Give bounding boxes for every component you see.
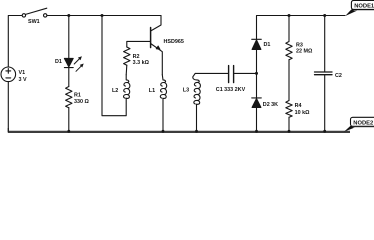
ground rail [8, 131, 350, 133]
svg-text:D1: D1 [264, 42, 271, 48]
inductor L2 [124, 75, 130, 99]
wire left rail top [8, 16, 22, 67]
wire R3 to R4 [288, 60, 290, 101]
resistor R1 [66, 87, 72, 108]
node NODE2 flag [344, 117, 374, 132]
resistor R2 [124, 47, 130, 65]
transistor Q1 HSD965 [150, 28, 152, 48]
wire D2 to ground rail [256, 107, 258, 131]
capacitor C1 [195, 72, 228, 74]
wire top rail right section [257, 16, 346, 40]
wire D1 to junction [256, 49, 258, 98]
diode D1 [252, 38, 262, 40]
svg-text:L1: L1 [149, 88, 155, 94]
svg-text:C2: C2 [335, 73, 342, 79]
wire R2 to base [127, 41, 150, 47]
inductor L1 [160, 75, 166, 132]
svg-text:R2: R2 [133, 54, 140, 60]
svg-text:R4: R4 [295, 103, 302, 109]
svg-text:L2: L2 [112, 88, 118, 94]
wire R1 to ground rail [68, 108, 70, 132]
LED D1 [64, 58, 73, 67]
wire R4 to ground rail [288, 117, 290, 131]
switch SW1 [22, 14, 25, 17]
svg-text:L3: L3 [183, 87, 189, 93]
resistor R3 [286, 16, 292, 60]
wire LED to R1 [68, 68, 70, 87]
svg-text:V1: V1 [19, 70, 26, 76]
voltage source V1 [1, 67, 16, 82]
wire L2 to R2 [125, 65, 128, 75]
svg-text:330 Ω: 330 Ω [74, 99, 89, 105]
svg-text:R3: R3 [296, 42, 303, 48]
svg-text:R1: R1 [74, 93, 81, 99]
svg-text:SW1: SW1 [28, 19, 40, 25]
node junction dot base branch [101, 14, 104, 17]
node junction dot R3 [288, 14, 291, 17]
svg-text:10 kΩ: 10 kΩ [295, 110, 310, 116]
svg-text:HSD965: HSD965 [164, 39, 184, 45]
svg-text:D1: D1 [55, 59, 62, 65]
node junction dot LED branch [67, 14, 70, 17]
svg-text:D2 3K: D2 3K [263, 102, 278, 108]
inductor L3 [193, 73, 201, 131]
wire left rail bottom [7, 82, 9, 132]
node NODE1 flag [345, 0, 374, 16]
resistor R4 [286, 101, 292, 118]
wire LED branch [68, 16, 70, 59]
svg-text:3.3 kΩ: 3.3 kΩ [133, 60, 150, 66]
svg-text:NODE1: NODE1 [354, 4, 374, 10]
svg-text:3 V: 3 V [19, 77, 27, 83]
node junction dot C2 [323, 14, 326, 17]
svg-text:NODE2: NODE2 [353, 121, 373, 127]
wire top rail left section [47, 15, 161, 17]
svg-text:C1 333 2KV: C1 333 2KV [216, 87, 246, 93]
ground rail junction dots [67, 130, 326, 133]
svg-text:22 MΩ: 22 MΩ [296, 49, 313, 55]
node junction dot C1 [255, 72, 258, 75]
diode D2 [252, 97, 262, 99]
wire base branch vertical [102, 16, 126, 116]
capacitor C2 [324, 16, 326, 72]
